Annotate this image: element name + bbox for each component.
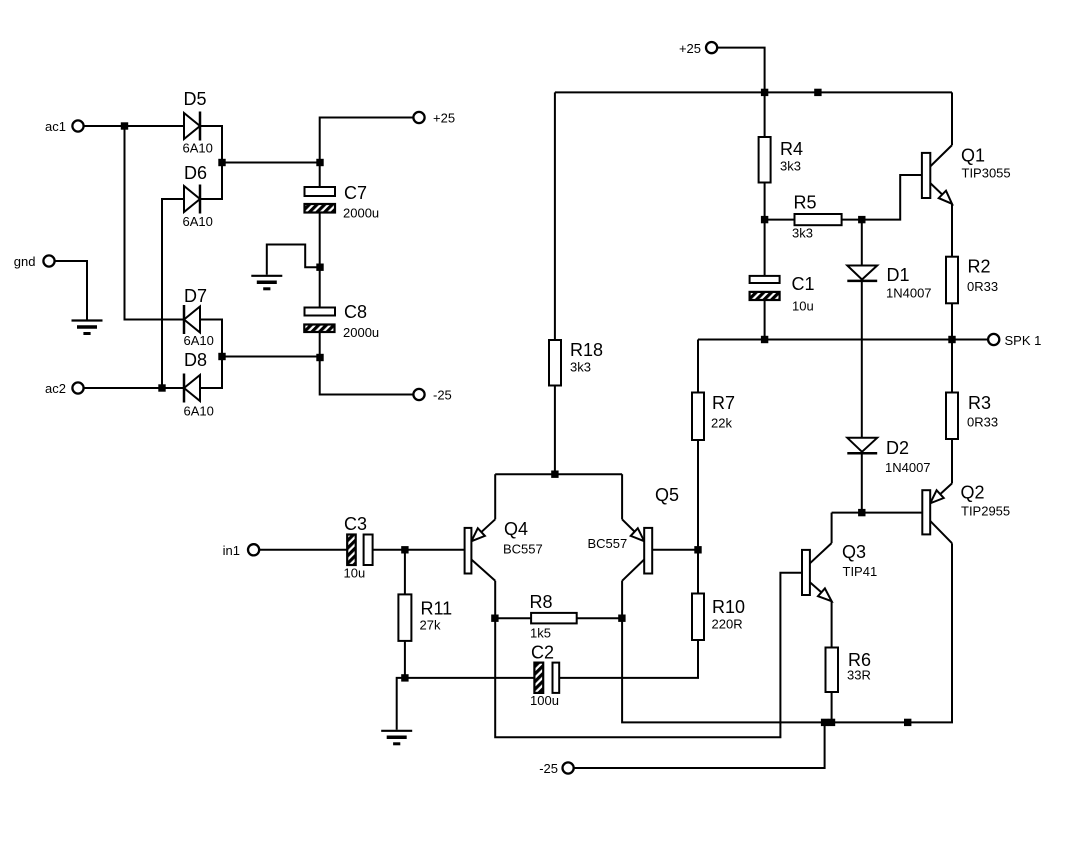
svg-text:6A10: 6A10	[184, 333, 214, 348]
svg-text:Q1: Q1	[961, 146, 985, 166]
svg-text:2000u: 2000u	[343, 206, 379, 221]
svg-text:Q3: Q3	[842, 542, 866, 562]
svg-text:BC557: BC557	[588, 536, 628, 551]
svg-text:R11: R11	[421, 599, 453, 619]
svg-text:3k3: 3k3	[570, 360, 591, 375]
svg-text:TIP2955: TIP2955	[961, 504, 1010, 519]
svg-text:ac1: ac1	[45, 119, 66, 134]
svg-text:2000u: 2000u	[343, 325, 379, 340]
svg-text:R18: R18	[570, 340, 603, 360]
svg-text:D7: D7	[184, 286, 207, 306]
svg-text:+25: +25	[433, 111, 455, 126]
svg-text:D2: D2	[886, 438, 909, 458]
svg-text:ac2: ac2	[45, 381, 66, 396]
svg-text:BC557: BC557	[503, 542, 543, 557]
svg-text:22k: 22k	[711, 416, 732, 431]
svg-text:R7: R7	[712, 393, 735, 413]
svg-text:0R33: 0R33	[967, 415, 998, 430]
svg-text:220R: 220R	[712, 617, 743, 632]
svg-text:C2: C2	[531, 643, 554, 663]
svg-text:1N4007: 1N4007	[886, 286, 932, 301]
svg-text:27k: 27k	[420, 618, 441, 633]
svg-text:6A10: 6A10	[183, 141, 213, 156]
svg-text:R3: R3	[968, 393, 991, 413]
svg-text:TIP3055: TIP3055	[962, 166, 1011, 181]
svg-text:33R: 33R	[847, 668, 871, 683]
svg-text:TIP41: TIP41	[843, 564, 878, 579]
svg-text:-25: -25	[539, 761, 558, 776]
svg-text:C3: C3	[344, 514, 367, 534]
svg-text:R10: R10	[712, 597, 745, 617]
svg-text:100u: 100u	[530, 693, 559, 708]
svg-text:0R33: 0R33	[967, 279, 998, 294]
svg-text:1N4007: 1N4007	[885, 460, 931, 475]
svg-text:R5: R5	[794, 193, 817, 213]
svg-text:1k5: 1k5	[530, 626, 551, 641]
svg-text:C1: C1	[792, 274, 815, 294]
svg-text:-25: -25	[433, 388, 452, 403]
svg-text:R2: R2	[968, 257, 991, 277]
svg-text:3k3: 3k3	[792, 226, 813, 241]
svg-text:6A10: 6A10	[184, 404, 214, 419]
svg-text:D5: D5	[184, 89, 207, 109]
svg-text:D6: D6	[184, 163, 207, 183]
svg-text:10u: 10u	[344, 566, 366, 581]
svg-text:10u: 10u	[792, 299, 814, 314]
svg-text:Q5: Q5	[655, 485, 679, 505]
svg-text:Q2: Q2	[961, 483, 985, 503]
svg-text:3k3: 3k3	[780, 159, 801, 174]
svg-text:D1: D1	[887, 265, 910, 285]
svg-text:R4: R4	[780, 139, 803, 159]
svg-text:Q4: Q4	[504, 519, 528, 539]
svg-text:gnd: gnd	[14, 254, 36, 269]
svg-text:6A10: 6A10	[183, 214, 213, 229]
svg-text:R8: R8	[530, 592, 553, 612]
svg-text:C8: C8	[344, 302, 367, 322]
svg-text:in1: in1	[223, 543, 240, 558]
svg-text:D8: D8	[184, 350, 207, 370]
svg-text:+25: +25	[679, 41, 701, 56]
svg-text:SPK 1: SPK 1	[1005, 333, 1042, 348]
svg-text:C7: C7	[344, 183, 367, 203]
